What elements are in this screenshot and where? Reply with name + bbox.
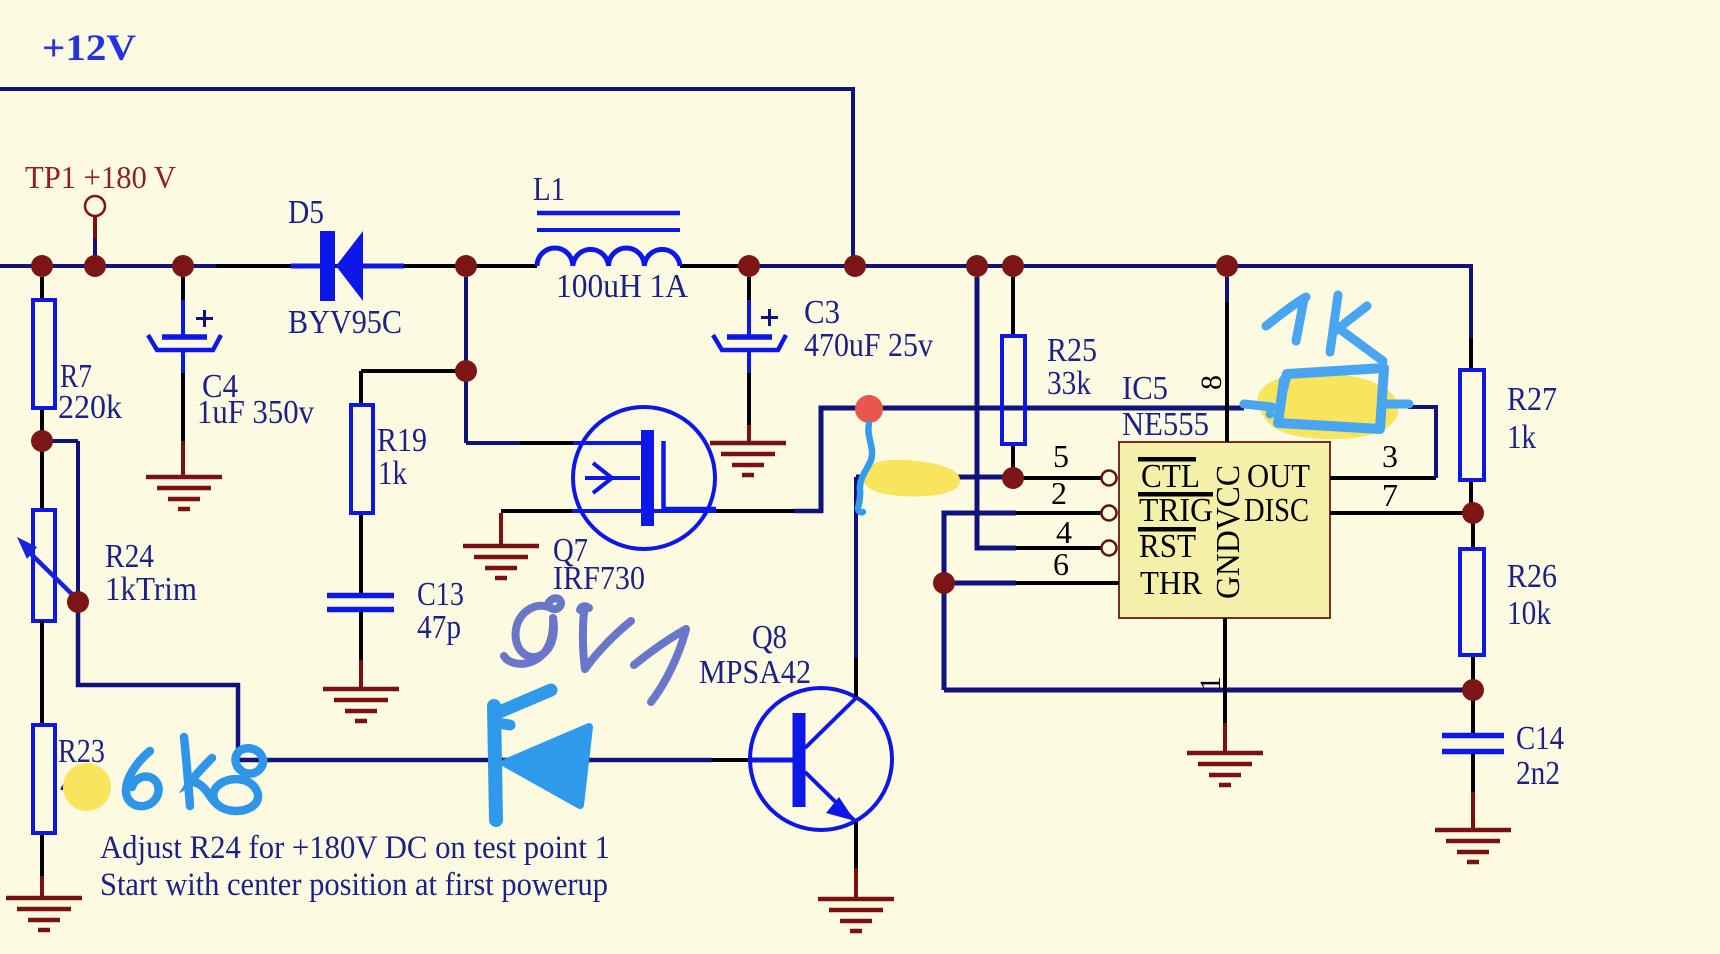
svg-text:GNDVCC: GNDVCC [1210, 465, 1247, 599]
resistor R19 [351, 371, 427, 593]
svg-text:IC5: IC5 [1122, 370, 1168, 407]
svg-text:R25: R25 [1047, 332, 1097, 369]
resistor R23 [33, 621, 105, 898]
svg-text:MPSA42: MPSA42 [699, 654, 811, 691]
svg-text:5: 5 [1053, 438, 1069, 474]
highlighter blob over CTL wire [862, 460, 960, 497]
svg-text:470uF 25v: 470uF 25v [804, 327, 933, 364]
transistor Q8 MPSA42 [699, 619, 892, 830]
svg-text:C13: C13 [417, 576, 464, 613]
annotation red dot [855, 395, 883, 423]
svg-text:L1: L1 [533, 171, 565, 208]
handwritten 6k8 [126, 737, 263, 811]
svg-text:33k: 33k [1047, 365, 1091, 402]
pin 6 THR [1016, 546, 1119, 583]
svg-text:R24: R24 [105, 538, 154, 575]
ground C3 [710, 443, 786, 475]
hand-drawn resistor leads [1244, 404, 1409, 419]
diode D5 [288, 194, 404, 341]
resistor R25 [1002, 277, 1097, 478]
ground Q8 emitter [818, 899, 894, 931]
svg-text:+12V: +12V [42, 28, 136, 69]
svg-text:4: 4 [1056, 514, 1072, 550]
ground C13 [323, 689, 399, 721]
wire TRIG/THR net [944, 513, 1473, 690]
svg-text:6: 6 [1053, 546, 1069, 582]
pin 3 OUT wire [1330, 407, 1436, 478]
capacitor C3 [713, 277, 933, 443]
svg-text:3: 3 [1382, 438, 1398, 474]
svg-text:1uF 350v: 1uF 350v [197, 394, 314, 431]
wire Q8 emitter to ground [854, 822, 858, 899]
op-amp U1 : IC5 NE555 body [1119, 370, 1330, 618]
ground R23 [6, 898, 82, 930]
highlighter blob over R23 value [63, 763, 111, 811]
wire main +180V/+12V rail [0, 266, 1471, 338]
svg-text:2: 2 [1051, 475, 1067, 511]
pin 5 CTL [1013, 438, 1117, 486]
pin 8 VCC [1195, 277, 1228, 442]
resistor R26 [1460, 513, 1557, 690]
wire rail black pin stubs [216, 264, 749, 268]
svg-text:C3: C3 [804, 294, 840, 331]
wire VCC to RST (pin4) [977, 277, 1016, 548]
svg-text:NE555: NE555 [1122, 406, 1209, 443]
svg-text:CTL: CTL [1141, 458, 1200, 495]
svg-text:7: 7 [1382, 477, 1398, 513]
svg-text:RST: RST [1139, 528, 1196, 565]
svg-text:1: 1 [1194, 676, 1227, 691]
svg-text:THR: THR [1140, 565, 1202, 602]
svg-text:OUT: OUT [1247, 458, 1310, 495]
svg-text:1kTrim: 1kTrim [105, 571, 197, 608]
svg-text:47p: 47p [417, 609, 461, 646]
pin 1 GND [1194, 618, 1227, 753]
svg-text:Adjust R24 for +180V DC on tes: Adjust R24 for +180V DC on test point 1 [100, 830, 610, 866]
ground C4 [146, 477, 222, 509]
wire Q8 collector [854, 477, 858, 697]
svg-text:IRF730: IRF730 [553, 560, 645, 597]
svg-text:220k: 220k [58, 389, 122, 426]
handwritten 9V1 [504, 598, 686, 702]
svg-text:1k: 1k [378, 455, 407, 492]
transistor Q7 IRF730 [553, 407, 716, 597]
svg-text:8: 8 [1195, 375, 1228, 390]
resistor R27 [1460, 338, 1557, 513]
hand-drawn resistor 1K rectangle [1278, 368, 1384, 429]
ground IC5 pin1 [1187, 753, 1263, 785]
highlighter blob under 1K resistor [1258, 373, 1399, 439]
ground Q7 source [463, 546, 539, 578]
pin 4 RST [1016, 514, 1117, 556]
test point TP1 [85, 196, 105, 258]
svg-text:100uH 1A: 100uH 1A [556, 268, 688, 305]
svg-text:D5: D5 [288, 194, 324, 231]
pin 7 DISC wire [1330, 477, 1473, 513]
wire CTL net / Q8 collector top [856, 475, 1013, 480]
svg-text:1k: 1k [1507, 419, 1536, 456]
svg-text:TP1 +180 V: TP1 +180 V [25, 159, 176, 195]
svg-text:C14: C14 [1516, 720, 1564, 757]
inductor L1 [533, 171, 688, 305]
svg-text:Q8: Q8 [752, 619, 787, 656]
handwritten 1K [1266, 295, 1383, 361]
svg-text:DISC: DISC [1244, 492, 1309, 529]
svg-text:TRIG: TRIG [1139, 492, 1213, 529]
svg-text:R19: R19 [377, 422, 427, 459]
wire Q7 source to ground [501, 511, 572, 546]
capacitor C13 [327, 576, 464, 689]
capacitor C4 [148, 277, 314, 477]
svg-text:2n2: 2n2 [1516, 755, 1560, 792]
ground C14 [1435, 830, 1511, 862]
node drain net (L1/D5 junction to Q7) [361, 277, 573, 443]
wire feedback net to Q8 base [78, 602, 750, 760]
svg-text:10k: 10k [1507, 595, 1551, 632]
svg-text:R27: R27 [1507, 381, 1557, 418]
wire +12V feed [0, 89, 853, 260]
wire Q7 gate to 555 (thick 1K net) [716, 408, 1244, 513]
capacitor C14 [1442, 690, 1564, 830]
hand-drawn zener diode [494, 690, 589, 820]
svg-text:BYV95C: BYV95C [288, 304, 402, 341]
pin 2 TRIG [1016, 475, 1117, 521]
svg-text:Start with center position at: Start with center position at first powe… [100, 867, 608, 903]
potentiometer R24 [17, 441, 197, 621]
svg-text:R26: R26 [1507, 558, 1557, 595]
resistor R7 [33, 277, 122, 510]
annotation blue squiggle [858, 424, 872, 512]
